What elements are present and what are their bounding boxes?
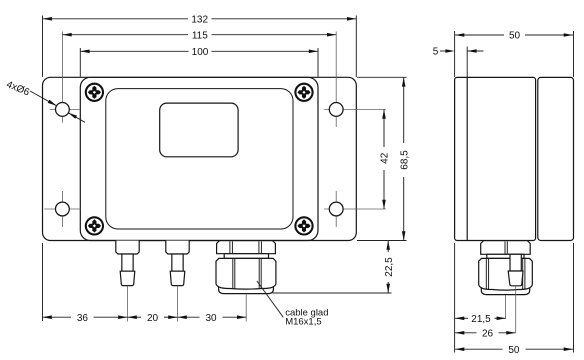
screw top-left — [86, 84, 103, 101]
dimension 26 — [455, 332, 515, 334]
hole bottom-left — [56, 202, 70, 216]
hole bottom-right — [329, 202, 343, 216]
side view back box — [538, 77, 574, 240]
cover outer edge — [80, 77, 318, 240]
svg-text:20: 20 — [147, 313, 159, 324]
screw bottom-left — [86, 217, 103, 234]
dimension 20 — [128, 316, 178, 318]
dimension 115 — [63, 34, 337, 36]
dimension 42 — [383, 110, 385, 210]
dimension 100 — [80, 48, 318, 77]
hole top-right — [329, 103, 343, 117]
gland front facet lines — [230, 242, 262, 289]
svg-text:22,5: 22,5 — [384, 257, 395, 277]
hole bottom-left crosshair — [44, 191, 80, 227]
dimension 132 — [43, 16, 357, 78]
nipple P1 centre line — [127, 286, 129, 322]
nipple P2 centre line — [177, 286, 179, 322]
dimension 21,5 — [455, 243, 506, 353]
mounting plate (front view) — [43, 77, 357, 240]
gland centre extension line — [245, 294, 247, 322]
hole top-right crosshair — [324, 32, 386, 128]
svg-text:50: 50 — [509, 31, 521, 42]
side view lid box — [455, 77, 574, 240]
nipple seen in side view — [508, 254, 523, 285]
svg-text:50: 50 — [508, 345, 520, 356]
dimension 30 — [178, 316, 247, 318]
cable gland (front view) — [216, 241, 276, 294]
svg-text:100: 100 — [192, 47, 209, 58]
display window — [160, 103, 238, 157]
gland side centre line — [505, 295, 507, 319]
pressure port nipple P2 — [166, 241, 189, 286]
dimension 5 — [440, 47, 484, 78]
svg-text:5: 5 — [433, 46, 439, 57]
svg-text:M16x1,5: M16x1,5 — [285, 316, 321, 327]
svg-text:36: 36 — [77, 313, 89, 324]
pressure port nipple P1 — [116, 241, 139, 286]
cable gland (side view) — [479, 241, 533, 295]
hole bottom-right crosshair — [324, 191, 386, 227]
screw top-right — [295, 84, 312, 101]
hole top-left — [56, 103, 70, 117]
svg-text:68,5: 68,5 — [399, 150, 410, 170]
dimension 68,5 — [357, 77, 407, 240]
cover inner edge line — [106, 89, 293, 229]
hole top-left crosshair — [50, 32, 80, 123]
svg-text:42: 42 — [380, 152, 391, 164]
leader cable gland — [257, 281, 283, 317]
svg-text:21,5: 21,5 — [471, 314, 491, 325]
dimension 50 top — [455, 31, 574, 77]
svg-text:30: 30 — [205, 313, 217, 324]
side view lid step line — [466, 77, 468, 240]
dimension 22,5 — [273, 241, 392, 293]
nipple side centre line — [515, 286, 517, 333]
screw bottom-right — [295, 217, 312, 234]
dimension 50 bottom — [455, 243, 573, 353]
svg-text:26: 26 — [482, 328, 494, 339]
gland side facet lines — [486, 242, 525, 290]
svg-text:132: 132 — [191, 14, 208, 25]
svg-text:115: 115 — [192, 30, 208, 41]
dimension 36 — [43, 243, 128, 321]
